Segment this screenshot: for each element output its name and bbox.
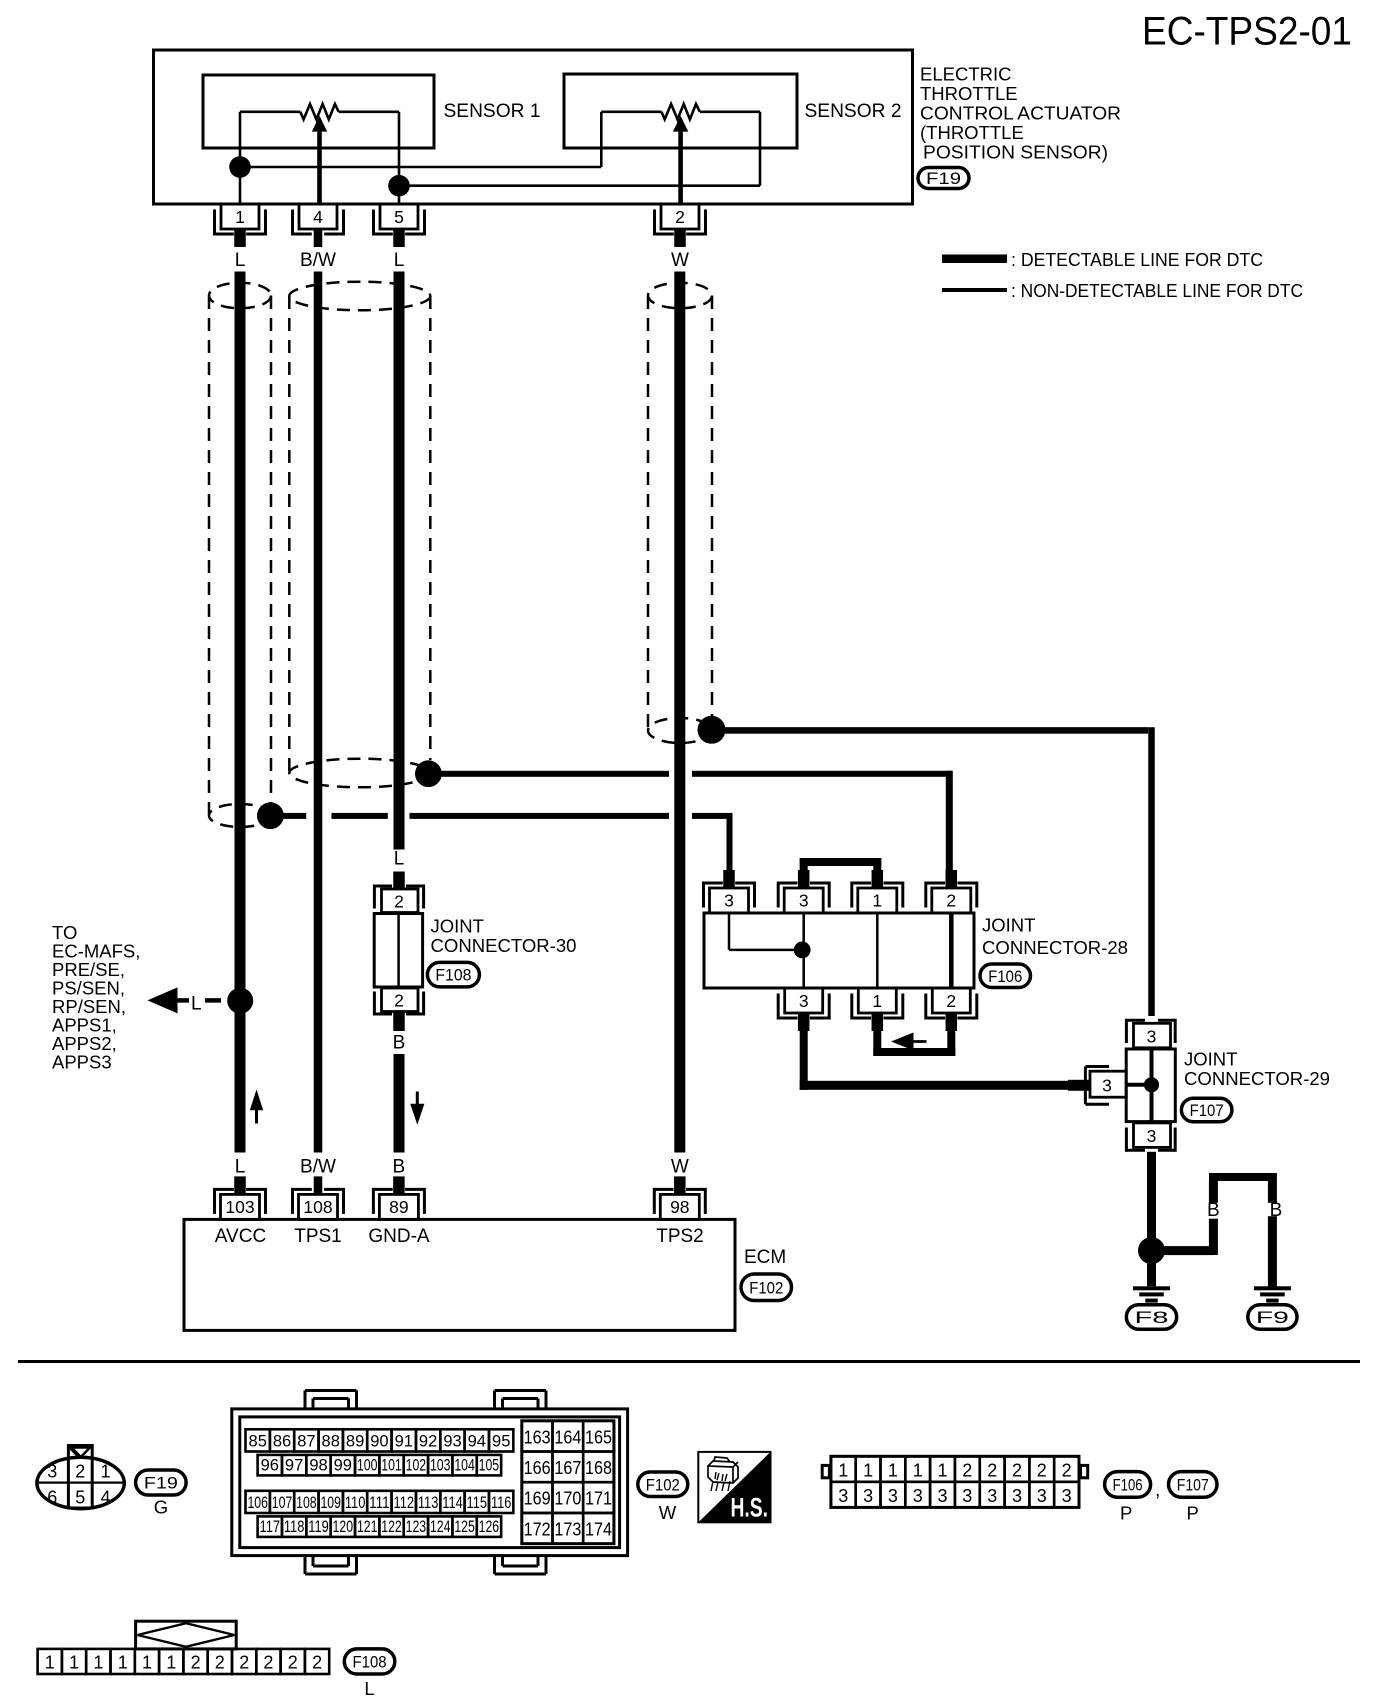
svg-text:98: 98 xyxy=(309,1456,327,1474)
svg-text:ELECTRIC: ELECTRIC xyxy=(920,64,1012,85)
svg-text:102: 102 xyxy=(406,1456,427,1474)
svg-text:116: 116 xyxy=(491,1494,512,1512)
svg-text:B: B xyxy=(393,1033,406,1054)
pin 2 xyxy=(661,204,699,229)
shield2 junction dot xyxy=(415,760,442,787)
svg-text:125: 125 xyxy=(454,1518,475,1536)
F108 connector face xyxy=(136,1621,237,1649)
svg-text:B: B xyxy=(393,1157,406,1178)
svg-text:114: 114 xyxy=(442,1494,463,1512)
svg-text:1: 1 xyxy=(118,1653,128,1673)
JC-28 internal wires xyxy=(728,913,731,950)
svg-text:108: 108 xyxy=(303,1197,332,1217)
net AVCC internal wire xyxy=(240,166,601,169)
svg-text:119: 119 xyxy=(308,1518,329,1536)
svg-text:167: 167 xyxy=(554,1457,581,1478)
svg-text:100: 100 xyxy=(357,1456,378,1474)
svg-text:B/W: B/W xyxy=(300,250,336,271)
legend detectable line xyxy=(942,255,1007,264)
svg-text:AVCC: AVCC xyxy=(215,1226,266,1247)
ECM pins row 117-126 xyxy=(258,1516,282,1537)
svg-text:88: 88 xyxy=(322,1433,340,1451)
svg-text:126: 126 xyxy=(479,1518,500,1536)
svg-text:122: 122 xyxy=(381,1518,402,1536)
ECM pins row 96-105 xyxy=(258,1455,282,1476)
svg-text:P: P xyxy=(1187,1503,1199,1524)
svg-text:1: 1 xyxy=(100,1462,110,1482)
svg-text:173: 173 xyxy=(554,1519,581,1540)
JC-28 bottom pin 3 xyxy=(785,988,823,1013)
ECM pin 89 xyxy=(379,1194,418,1219)
F19 ref oval xyxy=(136,1470,187,1495)
branch dash xyxy=(205,998,221,1003)
wiper arrow sensor 1 xyxy=(312,116,327,132)
ground U bridge top xyxy=(1209,1173,1277,1181)
svg-text:2: 2 xyxy=(75,1462,85,1482)
svg-text:99: 99 xyxy=(334,1456,352,1474)
ECM pins row 85-95 xyxy=(246,1429,270,1451)
svg-text:111: 111 xyxy=(369,1494,390,1512)
F107 ref oval xyxy=(1169,1472,1218,1498)
wire L from pin5 to JC-30 xyxy=(394,272,405,850)
ground U bridge left leg xyxy=(1209,1219,1218,1255)
svg-text:3: 3 xyxy=(1062,1486,1072,1506)
sensor 2 box xyxy=(564,74,797,148)
svg-text:1: 1 xyxy=(888,1460,898,1480)
svg-text:2: 2 xyxy=(1062,1460,1072,1480)
svg-text:SENSOR 1: SENSOR 1 xyxy=(444,101,541,122)
ECM pins rows 163-174 xyxy=(522,1421,614,1544)
svg-text:3: 3 xyxy=(888,1486,898,1506)
JC-28 top bridge wire xyxy=(800,858,808,871)
svg-text:3: 3 xyxy=(962,1486,972,1506)
F106 ref oval xyxy=(1105,1472,1151,1498)
svg-text:3: 3 xyxy=(47,1462,57,1482)
svg-text:1: 1 xyxy=(69,1653,79,1673)
svg-text:F9: F9 xyxy=(1256,1308,1289,1327)
svg-text:1: 1 xyxy=(913,1460,923,1480)
connector ref F108 xyxy=(427,962,479,987)
ECM pin 103 xyxy=(221,1194,260,1219)
svg-text:96: 96 xyxy=(261,1456,279,1474)
svg-text:3: 3 xyxy=(863,1486,873,1506)
shield2 drain wire to JC-28 pin2 xyxy=(439,771,669,777)
F102 ref oval xyxy=(638,1472,688,1497)
svg-text:JOINT: JOINT xyxy=(1184,1049,1237,1070)
svg-text:3: 3 xyxy=(913,1486,923,1506)
svg-text:F19: F19 xyxy=(144,1474,178,1493)
ground branch wire xyxy=(1158,1246,1213,1255)
svg-text:2: 2 xyxy=(946,891,956,911)
svg-text:THROTTLE: THROTTLE xyxy=(920,83,1018,104)
svg-text:F106: F106 xyxy=(988,967,1022,986)
svg-text:H.S.: H.S. xyxy=(731,1493,769,1523)
JC-29 left pin 3 xyxy=(1090,1071,1126,1097)
svg-text:164: 164 xyxy=(554,1426,581,1447)
ECM pins row 106-116 xyxy=(246,1491,270,1513)
svg-text:107: 107 xyxy=(272,1494,293,1512)
JC-29 top pin 3 xyxy=(1134,1023,1171,1048)
JC-30 bottom pin 2 xyxy=(382,988,419,1012)
sensor1 right leg wire xyxy=(398,112,401,204)
svg-text:115: 115 xyxy=(467,1494,488,1512)
svg-text:169: 169 xyxy=(524,1488,551,1509)
svg-text:1: 1 xyxy=(863,1460,873,1480)
svg-text:2: 2 xyxy=(675,207,685,227)
svg-text:F107: F107 xyxy=(1190,1101,1224,1120)
F19 connector face xyxy=(37,1457,124,1508)
shield3 drain wire to JC-29 xyxy=(722,727,1148,734)
pin 5 xyxy=(380,204,418,229)
ECM connector outline xyxy=(232,1409,628,1556)
JC-30 top stub xyxy=(393,872,405,890)
svg-text:B/W: B/W xyxy=(300,1157,336,1178)
connector ref F106 xyxy=(980,964,1031,988)
svg-text:93: 93 xyxy=(443,1433,461,1451)
JC-28 output wire to JC-29 xyxy=(800,1029,808,1090)
svg-text:3: 3 xyxy=(1037,1486,1047,1506)
JC-29 left stub xyxy=(1068,1080,1090,1091)
svg-text:2: 2 xyxy=(1012,1460,1022,1480)
JC-28 bottom pin 2 xyxy=(932,988,970,1013)
shield 1 (wire L pin1) xyxy=(209,283,271,309)
JC-30 top pin 2 xyxy=(382,889,419,913)
JC-30 bottom stub xyxy=(393,1012,405,1032)
svg-text:118: 118 xyxy=(284,1518,305,1536)
svg-text:4: 4 xyxy=(313,207,323,227)
shield3 junction dot xyxy=(698,716,726,744)
F106/F107 connector face xyxy=(831,1456,1079,1507)
JC-28 top pin 1 xyxy=(858,888,897,913)
svg-text:P: P xyxy=(1120,1503,1132,1524)
svg-text:3: 3 xyxy=(799,891,809,911)
wire L from pin1 to ECM 103 xyxy=(235,272,246,1153)
svg-text:89: 89 xyxy=(346,1433,364,1451)
ECM pin 98 xyxy=(660,1194,699,1219)
svg-text:5: 5 xyxy=(394,207,404,227)
svg-text:170: 170 xyxy=(554,1488,581,1509)
shield1 junction dot xyxy=(257,802,284,829)
svg-text:2: 2 xyxy=(962,1460,972,1480)
junction dot AVCC xyxy=(229,156,251,178)
shield 2 (wires B/W and L) xyxy=(289,282,430,311)
svg-text:TPS2: TPS2 xyxy=(656,1226,704,1247)
svg-text:L: L xyxy=(235,250,246,271)
svg-text:171: 171 xyxy=(585,1488,612,1509)
svg-text:,: , xyxy=(1155,1480,1160,1501)
svg-text:90: 90 xyxy=(370,1433,388,1451)
JC-28 bottom pin 1 xyxy=(858,988,896,1013)
ECM connector top tabs xyxy=(304,1391,307,1410)
svg-text:4: 4 xyxy=(100,1487,110,1507)
svg-text:2: 2 xyxy=(312,1653,322,1673)
svg-text:120: 120 xyxy=(333,1518,354,1536)
svg-text:CONNECTOR-29: CONNECTOR-29 xyxy=(1184,1068,1330,1089)
svg-text:ECM: ECM xyxy=(744,1247,786,1268)
svg-text:3: 3 xyxy=(1147,1126,1157,1146)
svg-text:2: 2 xyxy=(288,1653,298,1673)
svg-text:121: 121 xyxy=(357,1518,378,1536)
svg-text:F102: F102 xyxy=(749,1278,783,1297)
svg-text:F8: F8 xyxy=(1135,1308,1169,1327)
svg-text:L: L xyxy=(364,1678,374,1699)
svg-text:GND-A: GND-A xyxy=(368,1226,430,1247)
svg-text:3: 3 xyxy=(1012,1486,1022,1506)
svg-text:105: 105 xyxy=(479,1456,500,1474)
svg-text:2: 2 xyxy=(987,1460,997,1480)
svg-text:3: 3 xyxy=(987,1486,997,1506)
down arrow beside wire B xyxy=(410,1104,424,1125)
legend non-detectable line xyxy=(942,288,1007,292)
svg-text:1: 1 xyxy=(93,1653,103,1673)
svg-text:103: 103 xyxy=(430,1456,451,1474)
JC-28 body box xyxy=(704,913,974,988)
JC-28 top pin 3 (left) xyxy=(710,888,749,913)
wire B/W from pin4 to ECM 108 xyxy=(314,272,323,1153)
svg-text:2: 2 xyxy=(394,892,404,912)
electric throttle control actuator box xyxy=(154,50,913,204)
svg-text:92: 92 xyxy=(419,1433,437,1451)
svg-text:1: 1 xyxy=(937,1460,947,1480)
svg-text:106: 106 xyxy=(247,1494,268,1512)
ECM connector bottom tabs xyxy=(304,1556,307,1574)
svg-text:87: 87 xyxy=(297,1433,315,1451)
svg-text:91: 91 xyxy=(395,1433,413,1451)
svg-text:F19: F19 xyxy=(926,170,961,188)
JC-28 internal junction dot xyxy=(794,942,811,959)
svg-text:109: 109 xyxy=(320,1494,341,1512)
svg-text:F107: F107 xyxy=(1177,1475,1209,1494)
JC-28 top pin 2 xyxy=(932,888,971,913)
JC-29 bottom pin 3 xyxy=(1134,1123,1171,1148)
ground U bridge right leg xyxy=(1268,1181,1277,1203)
svg-text:94: 94 xyxy=(468,1433,486,1451)
svg-text:1: 1 xyxy=(235,207,245,227)
svg-text:97: 97 xyxy=(285,1456,303,1474)
svg-text:EC-TPS2-01: EC-TPS2-01 xyxy=(1142,10,1352,54)
connector ref F19 xyxy=(918,168,969,189)
ECM box xyxy=(184,1219,735,1330)
resistor sensor 1 xyxy=(240,111,300,114)
shield 3 (wire W) xyxy=(648,283,712,309)
JC-29 body box xyxy=(1126,1049,1175,1122)
svg-text:86: 86 xyxy=(273,1433,291,1451)
pin 1 xyxy=(221,204,259,229)
svg-text:112: 112 xyxy=(394,1494,415,1512)
junction dot wire L xyxy=(227,988,253,1014)
svg-text:103: 103 xyxy=(225,1197,254,1217)
svg-text:L: L xyxy=(394,250,405,271)
svg-text:3: 3 xyxy=(799,991,809,1011)
svg-text:1: 1 xyxy=(45,1653,55,1673)
branch arrow left xyxy=(147,987,177,1013)
net GND internal wire xyxy=(399,184,760,187)
svg-text:168: 168 xyxy=(585,1457,612,1478)
svg-text:G: G xyxy=(154,1497,168,1518)
svg-text:POSITION SENSOR): POSITION SENSOR) xyxy=(923,142,1108,163)
svg-text:172: 172 xyxy=(524,1519,551,1540)
svg-text:W: W xyxy=(671,250,689,271)
wire W from pin2 to ECM 98 xyxy=(674,272,685,1153)
svg-text:98: 98 xyxy=(670,1197,689,1217)
svg-text:2: 2 xyxy=(191,1653,201,1673)
svg-text:1: 1 xyxy=(872,891,882,911)
JC-29 internal wires xyxy=(1126,1083,1151,1087)
JC-28 direction arrow xyxy=(891,1033,914,1051)
sensor1 left leg wire xyxy=(239,112,242,204)
svg-text:2: 2 xyxy=(239,1653,249,1673)
svg-text:: DETECTABLE LINE FOR DTC: : DETECTABLE LINE FOR DTC xyxy=(1011,249,1263,270)
svg-text:: NON-DETECTABLE LINE FOR DTC: : NON-DETECTABLE LINE FOR DTC xyxy=(1011,280,1303,301)
svg-text:F102: F102 xyxy=(646,1475,680,1494)
svg-text:3: 3 xyxy=(937,1486,947,1506)
svg-text:L: L xyxy=(394,849,405,870)
svg-text:1: 1 xyxy=(142,1653,152,1673)
svg-text:APPS3: APPS3 xyxy=(52,1052,112,1073)
up arrow beside wire L xyxy=(250,1090,263,1111)
svg-text:2: 2 xyxy=(263,1653,273,1673)
svg-text:2: 2 xyxy=(394,991,404,1011)
sensor 1 box xyxy=(203,75,434,148)
ground F9 xyxy=(1254,1286,1291,1290)
svg-text:B: B xyxy=(1270,1200,1283,1221)
svg-text:TPS1: TPS1 xyxy=(294,1226,342,1247)
ground junction dot xyxy=(1138,1237,1165,1264)
svg-text:3: 3 xyxy=(724,891,734,911)
ground F8 xyxy=(1133,1286,1170,1290)
svg-text:L: L xyxy=(191,994,202,1015)
svg-text:W: W xyxy=(659,1502,677,1523)
svg-text:95: 95 xyxy=(492,1433,510,1451)
svg-text:2: 2 xyxy=(1037,1460,1047,1480)
svg-text:CONNECTOR-28: CONNECTOR-28 xyxy=(982,937,1128,958)
svg-text:1: 1 xyxy=(838,1460,848,1480)
svg-text:B: B xyxy=(1207,1200,1220,1221)
svg-text:F106: F106 xyxy=(1113,1475,1143,1494)
svg-text:L: L xyxy=(235,1157,246,1178)
svg-text:101: 101 xyxy=(381,1456,402,1474)
svg-text:6: 6 xyxy=(47,1487,57,1507)
F108 ref oval xyxy=(344,1649,395,1674)
svg-text:JOINT: JOINT xyxy=(431,916,484,937)
svg-text:3: 3 xyxy=(1147,1026,1157,1046)
svg-text:1: 1 xyxy=(872,991,882,1011)
JC-30 body box xyxy=(374,914,422,988)
svg-text:174: 174 xyxy=(585,1519,612,1540)
svg-text:(THROTTLE: (THROTTLE xyxy=(920,122,1024,143)
JC-29 internal junction dot xyxy=(1144,1077,1159,1092)
svg-text:CONTROL ACTUATOR: CONTROL ACTUATOR xyxy=(920,103,1121,124)
svg-text:163: 163 xyxy=(524,1426,551,1447)
ECM pin 108 xyxy=(299,1194,338,1219)
svg-text:CONNECTOR-30: CONNECTOR-30 xyxy=(431,935,577,956)
svg-text:W: W xyxy=(671,1157,689,1178)
junction dot GND xyxy=(388,175,410,197)
svg-text:166: 166 xyxy=(524,1457,551,1478)
svg-text:117: 117 xyxy=(260,1518,281,1536)
svg-text:5: 5 xyxy=(75,1487,85,1507)
wire B from JC-30 to ECM 89 xyxy=(394,1054,405,1153)
svg-text:165: 165 xyxy=(585,1426,612,1447)
wiper arrow sensor 2 xyxy=(673,116,688,132)
svg-text:113: 113 xyxy=(418,1494,439,1512)
svg-text:89: 89 xyxy=(389,1197,408,1217)
svg-text:2: 2 xyxy=(946,991,956,1011)
shield1 drain wire to JC-28 pin3 xyxy=(282,813,306,819)
wire JC-29 to ground xyxy=(1147,1152,1156,1264)
svg-text:2: 2 xyxy=(215,1653,225,1673)
svg-text:104: 104 xyxy=(454,1456,475,1474)
connector ref F107 xyxy=(1181,1098,1232,1122)
svg-text:85: 85 xyxy=(249,1433,267,1451)
svg-text:JOINT: JOINT xyxy=(982,915,1035,936)
JC-28 top pin 3 (mid) xyxy=(784,888,823,913)
svg-text:124: 124 xyxy=(430,1518,451,1536)
svg-text:1: 1 xyxy=(166,1653,176,1673)
H.S. view logo xyxy=(698,1452,770,1522)
pin 4 xyxy=(299,204,337,229)
svg-text:3: 3 xyxy=(838,1486,848,1506)
svg-text:F108: F108 xyxy=(353,1652,387,1671)
svg-text:123: 123 xyxy=(406,1518,427,1536)
wire dot to ground F8 xyxy=(1147,1250,1156,1286)
svg-text:110: 110 xyxy=(345,1494,366,1512)
svg-text:F108: F108 xyxy=(435,966,471,985)
connector ref F102 xyxy=(741,1274,792,1301)
svg-text:108: 108 xyxy=(296,1494,317,1512)
svg-text:3: 3 xyxy=(1102,1076,1112,1096)
JC-28 bottom U wire with arrow xyxy=(873,1029,881,1056)
resistor sensor 2 xyxy=(601,111,661,114)
svg-text:SENSOR 2: SENSOR 2 xyxy=(805,101,902,122)
separator line xyxy=(18,1360,1360,1363)
